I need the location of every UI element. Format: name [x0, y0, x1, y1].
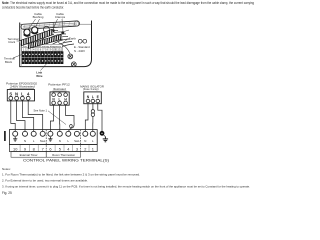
svg-text:SwL: SwL [40, 139, 46, 143]
wire loop [68, 122, 74, 131]
svg-text:3. If using an internal timer,: 3. If using an internal timer, connect i… [2, 185, 250, 189]
group label: External Timer [11, 152, 46, 158]
screw mark [64, 30, 69, 32]
svg-text:4: 4 [27, 91, 30, 96]
panel screw B [71, 62, 76, 67]
cable clamp bar [21, 21, 80, 30]
number cell dividers [25, 48, 59, 52]
leader lines from Cable Clamps [53, 19, 63, 32]
see note leader [48, 111, 66, 125]
programmer box [7, 90, 34, 101]
svg-text:block: block [9, 40, 16, 44]
wire arc to screw [58, 43, 70, 54]
clamp screw 1 [52, 29, 55, 32]
svg-text:L: L [21, 91, 24, 96]
svg-text:Earth: Earth [69, 36, 76, 40]
svg-text:See Note 1: See Note 1 [34, 108, 48, 112]
svg-text:Potterton PF12: Potterton PF12 [48, 83, 70, 87]
main earth terminal [100, 131, 105, 136]
PF12 top terminals [52, 93, 68, 97]
clamp label drop line [52, 22, 54, 30]
svg-text:3: 3 [76, 146, 78, 151]
svg-text:1. For Room Thermostat(s) to b: 1. For Room Thermostat(s) to be fitted, … [2, 173, 140, 177]
PF12 terminal letters N L H [52, 97, 67, 101]
strip number row [9, 145, 97, 152]
panel inner left edge [20, 24, 22, 66]
panel top edge [20, 23, 92, 25]
svg-text:N: N [87, 95, 90, 99]
control panel terminal strip outline [9, 130, 97, 145]
terminal hole E [78, 39, 82, 43]
wire: PF12 L to terminal 5 [59, 105, 61, 131]
cable bushing hole middle [32, 27, 38, 33]
PF12 box [50, 92, 69, 105]
wire: programmer 4 to terminal 7 [28, 101, 43, 131]
terminal numbers 10..1 [13, 146, 94, 151]
leader lines from Cable Bushing [28, 19, 40, 31]
svg-text:CONTROL PANEL WIRING TERMINAL(: CONTROL PANEL WIRING TERMINAL(S) [23, 159, 109, 163]
link wire leader [41, 61, 50, 71]
wire: isolator N to terminal 2 [85, 104, 88, 132]
number dividers [20, 145, 89, 152]
svg-text:L: L [67, 139, 69, 143]
cable arcs [36, 30, 74, 52]
wire: programmer L to terminal 8 [22, 101, 33, 131]
cable bushing hole right [43, 26, 49, 32]
svg-text:7: 7 [42, 146, 44, 151]
isolator terminals [86, 99, 99, 103]
wire: PF12 N to terminal 6 [50, 105, 53, 131]
cable band upper (striped sheath) [19, 29, 54, 46]
leader arrow [13, 55, 22, 59]
terminal number row [22, 48, 63, 52]
svg-text:L: L [92, 139, 94, 143]
fuse F1 [91, 110, 94, 113]
main ground symbol [103, 137, 108, 142]
svg-text:10: 10 [13, 146, 18, 151]
strip earth symbol (terminal 6) [48, 137, 52, 141]
earth leader line [63, 39, 69, 43]
svg-text:E: E [97, 95, 100, 99]
svg-text:12: 12 [59, 48, 62, 52]
svg-text:240V Illustrated: 240V Illustrated [10, 85, 35, 89]
svg-text:(Fuse 3 amp): (Fuse 3 amp) [83, 87, 99, 91]
isolator letters N L E [87, 95, 100, 99]
svg-text:Clamps: Clamps [55, 15, 66, 19]
wire: PF12 H to terminal 4 with loop [66, 105, 74, 122]
svg-text:5: 5 [59, 146, 61, 151]
cable band lower (striped sheath) [27, 35, 63, 49]
PF12 bottom terminals [52, 101, 68, 105]
svg-text:Fig. 25: Fig. 25 [2, 191, 12, 195]
svg-text:8: 8 [33, 146, 35, 151]
wiring panel outline [20, 21, 92, 67]
wire: programmer S to terminal 10 [11, 101, 15, 131]
svg-text:SwL: SwL [74, 139, 80, 143]
svg-text:Notes:: Notes: [2, 167, 11, 171]
leader dash [17, 40, 20, 42]
svg-text:External Timer: External Timer [20, 153, 38, 157]
programmer terminal circles [9, 96, 30, 100]
terminal block row 2 [22, 58, 64, 64]
svg-text:N - 240V: N - 240V [74, 49, 85, 53]
strip terminal letters [24, 139, 94, 143]
earth stub [104, 135, 106, 137]
svg-text:Room Thermostat: Room Thermostat [52, 153, 75, 157]
svg-text:Block: Block [5, 60, 13, 64]
svg-text:N: N [15, 91, 18, 96]
strip group divider 2 [80, 130, 82, 152]
strip mounting mark [4, 131, 6, 141]
svg-text:2: 2 [84, 146, 86, 151]
svg-text:Note: The electrical mains sup: Note: The electrical mains supply must b… [2, 1, 254, 5]
svg-text:Bushing: Bushing [33, 15, 44, 19]
svg-text:Illustrated: Illustrated [53, 87, 66, 91]
strip group divider 1 [45, 130, 47, 152]
terminal block row 1 [22, 51, 64, 57]
terminal hole N [83, 39, 87, 43]
svg-text:H: H [64, 97, 67, 101]
panel screw A [68, 54, 73, 59]
svg-text:conductors become taut before: conductors become taut before the earth … [2, 5, 64, 9]
svg-text:L: L [33, 139, 35, 143]
strip terminal circles 10..1 [13, 131, 96, 136]
strip earth symbol (terminal 10) [13, 137, 17, 141]
svg-text:S: S [9, 91, 12, 96]
svg-text:9: 9 [24, 146, 26, 151]
svg-text:Wire: Wire [36, 74, 43, 78]
clamp screw 2 [61, 31, 64, 34]
svg-text:2. For External timer to be us: 2. For External timer to be used, two ex… [2, 179, 88, 183]
mains isolator box [84, 92, 102, 104]
terminal numbers 1-12 [23, 48, 63, 52]
svg-text:N: N [52, 97, 55, 101]
cable crescent under left bushing [24, 34, 31, 36]
wire: isolator L through fuse to terminal 1 [92, 103, 94, 110]
terminal strip label row [22, 44, 63, 47]
clamp screw 3 [43, 32, 46, 35]
svg-text:1: 1 [92, 146, 94, 151]
svg-text:N: N [59, 139, 61, 143]
svg-text:N: N [84, 139, 86, 143]
svg-text:N: N [24, 139, 26, 143]
cable bushing hole left [24, 29, 30, 35]
svg-text:4: 4 [67, 146, 70, 151]
programmer terminals S N L 4 [9, 91, 30, 96]
wire: programmer N to terminal 9 [17, 101, 25, 131]
programmer terminal stems [11, 99, 28, 102]
wire: isolator E to main earth terminal [98, 103, 102, 131]
svg-text:L: L [92, 95, 94, 99]
svg-text:6: 6 [49, 146, 51, 151]
cable crescent under middle bushing [31, 32, 38, 34]
group label: Room Thermostat [46, 152, 80, 158]
